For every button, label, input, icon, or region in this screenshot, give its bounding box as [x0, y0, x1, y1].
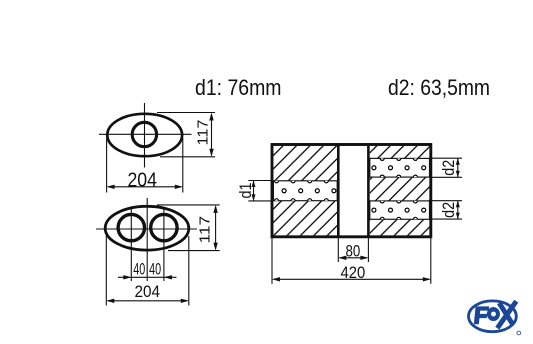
- d2 upper extension bottom: [431, 176, 462, 178]
- logo letter F: [474, 306, 489, 324]
- svg-text:40: 40: [133, 261, 145, 279]
- muffler shell oval (top view): [107, 114, 182, 156]
- svg-text:d1: d1: [236, 183, 255, 199]
- chamber wall right: [367, 145, 370, 237]
- svg-text:420: 420: [341, 264, 366, 282]
- dimension line 117: [211, 114, 213, 155]
- 420 extension left: [271, 238, 273, 284]
- pipe circle right: [151, 214, 177, 240]
- hatched chamber right middle: [370, 177, 430, 201]
- 80 dimension line: [340, 257, 367, 259]
- centerline horizontal: [96, 228, 197, 230]
- chamber wall left: [337, 145, 340, 237]
- perforated pipe d2 lower: [370, 201, 430, 219]
- centerline horizontal: [99, 133, 192, 135]
- extension line 204 left: [106, 138, 108, 193]
- d2 upper dimension line: [457, 158, 459, 177]
- shell outline: [272, 145, 431, 237]
- extension line 117 top: [157, 112, 215, 114]
- centerline vertical left pipe: [130, 209, 132, 282]
- logo letter X: [497, 301, 516, 328]
- dimension line 117: [215, 206, 217, 249]
- svg-text:117: 117: [194, 120, 211, 146]
- svg-text:40: 40: [149, 261, 161, 279]
- perforated pipe d2 upper: [370, 158, 430, 177]
- svg-text:80: 80: [346, 241, 361, 260]
- d1 dimension line: [253, 181, 255, 201]
- d1 extension top: [248, 180, 271, 182]
- dimension line 40/40: [118, 276, 177, 278]
- centerline vertical right pipe: [163, 209, 165, 282]
- registered mark: [517, 331, 521, 335]
- d2 lower dimension line: [457, 201, 459, 219]
- svg-text:d2: d2: [439, 160, 458, 176]
- logo letter O: [487, 307, 500, 321]
- centerline vertical: [144, 103, 146, 168]
- extension line 117 top: [157, 204, 220, 206]
- svg-text:204: 204: [135, 282, 161, 301]
- hatched chamber left lower: [273, 201, 337, 236]
- extension line 117 bottom: [160, 156, 215, 158]
- muffler shell oval (bottom view): [105, 206, 189, 250]
- d1 extension bottom: [248, 200, 271, 202]
- d2 lower extension top: [431, 200, 462, 202]
- logo ellipse ring: [469, 301, 517, 332]
- svg-text:d1: 76mm: d1: 76mm: [195, 75, 282, 100]
- d2 lower extension bottom: [431, 218, 462, 220]
- hatched chamber right upper: [370, 146, 430, 159]
- perforated pipe d1: [273, 181, 337, 201]
- 420 extension right: [430, 238, 432, 284]
- extension line 204 right: [182, 138, 184, 193]
- extension line 204 right: [188, 236, 190, 306]
- svg-text:d2: 63,5mm: d2: 63,5mm: [388, 75, 490, 100]
- pipe circle left: [118, 214, 144, 240]
- svg-text:d2: d2: [439, 202, 458, 218]
- centerline vertical middle: [146, 198, 148, 281]
- pipe circle d1: [132, 122, 156, 146]
- hatched chamber right lower: [370, 219, 430, 235]
- dimension line 204: [108, 186, 181, 188]
- 80 extension left: [337, 238, 339, 262]
- hatched chamber left upper: [273, 146, 337, 181]
- 80 extension right: [367, 238, 369, 262]
- d2 upper extension top: [431, 157, 462, 159]
- dimension line 204: [108, 300, 188, 302]
- svg-text:117: 117: [197, 216, 214, 244]
- 420 dimension line: [273, 278, 429, 280]
- extension line 204 left: [105, 236, 107, 306]
- svg-text:204: 204: [127, 169, 157, 191]
- extension line 117 bottom: [168, 250, 220, 252]
